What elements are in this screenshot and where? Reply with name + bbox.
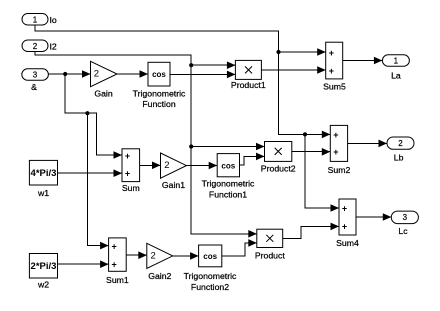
svg-text:Trigonometric: Trigonometric [133, 89, 186, 99]
svg-text:Sum2: Sum2 [328, 165, 351, 175]
constant w2 (2*Pi/3) [29, 254, 57, 290]
wire Gain1 to cos1 [186, 165, 217, 167]
trig function cos (Trigonometric Function1) [202, 154, 255, 200]
arrow into Sum1 in2 [100, 260, 109, 268]
svg-text:1: 1 [394, 56, 399, 65]
inport 3 (&) [22, 69, 49, 92]
node: port3 branch junction [63, 72, 67, 76]
svg-text:2: 2 [33, 42, 38, 51]
wire Sum2 to outport Lb [348, 142, 387, 144]
gain Gain1 [161, 153, 187, 190]
wire Gain2 to cos2 [173, 255, 199, 257]
wire I2: port2 down then right then down [35, 52, 257, 234]
svg-text:cos: cos [221, 161, 235, 170]
inport 1 (Io) [22, 14, 57, 26]
svg-text:Lc: Lc [398, 226, 408, 236]
arrow into Gain2 [138, 251, 147, 259]
svg-text:cos: cos [203, 252, 217, 261]
svg-text:+: + [329, 66, 334, 76]
wire port3 branch down to Sum in1 [65, 74, 122, 155]
wire Gain to Trigonometric Function [117, 73, 148, 75]
svg-text:+: + [125, 169, 130, 179]
wire Product1 to Sum5 in2 [261, 69, 325, 71]
svg-text:Product: Product [255, 251, 286, 261]
sum Sum5 [323, 42, 346, 91]
svg-text:+: + [333, 147, 338, 157]
arrow into Sum5 in2 [317, 66, 326, 74]
svg-text:w2: w2 [37, 280, 49, 290]
node: I2/Product1 junction [189, 63, 193, 67]
svg-text:+: + [112, 259, 117, 269]
wire branch I2 to Product1 in1 [191, 64, 235, 66]
product Product [255, 229, 286, 260]
arrow into Product in2 [248, 239, 257, 247]
svg-text:w1: w1 [37, 188, 49, 198]
svg-text:Product1: Product1 [231, 80, 266, 90]
svg-text:Trigonometric: Trigonometric [184, 271, 237, 281]
sum Sum2 [328, 125, 351, 175]
svg-text:Gain1: Gain1 [162, 180, 185, 190]
outport 3 (Lc) [391, 211, 418, 236]
svg-text:Sum4: Sum4 [336, 238, 359, 248]
svg-text:Sum5: Sum5 [323, 82, 346, 92]
svg-text:3: 3 [403, 213, 408, 222]
product Product1 [231, 60, 266, 90]
wire Sum1 to Gain2 [126, 254, 147, 256]
arrow into Sum2 in2 [322, 148, 331, 156]
wire branch down to Sum1 in1 [87, 113, 108, 245]
node: Io/Sum5 junction [276, 50, 280, 54]
svg-text:Gain2: Gain2 [148, 271, 171, 281]
arrow into Product1 in1 [227, 61, 236, 69]
outport 1 (La) [382, 55, 409, 81]
arrow into Sum4 in2 [331, 223, 340, 231]
svg-text:Sum1: Sum1 [106, 275, 129, 285]
wire w2 to Sum1 in2 [58, 263, 109, 265]
wire Product to Sum4 in2 [283, 226, 339, 238]
svg-text:I2: I2 [50, 41, 57, 51]
svg-text:+: + [342, 204, 347, 214]
node: I2/Product2 junction [189, 144, 193, 148]
node: Io/Sum4 junction [303, 132, 307, 136]
arrow into cos [140, 70, 149, 78]
arrow into Sum5 in1 [317, 48, 326, 56]
wire Product2 to Sum2 in2 [292, 151, 331, 153]
svg-text:Lb: Lb [394, 153, 404, 163]
svg-text:+: + [112, 242, 117, 252]
gain Gain [91, 61, 118, 98]
arrow into Sum1 in1 [100, 242, 109, 250]
wire Sum5 to outport La [343, 60, 383, 62]
wire Sum to Gain1 [140, 164, 161, 166]
svg-text:3: 3 [33, 71, 38, 80]
wire branch Io to Sum5 in1 [279, 51, 326, 53]
arrow into Sum in1 [114, 151, 123, 159]
trig function cos (Trigonometric Function2) [184, 245, 237, 292]
wire cos1 to Product2 in2 [240, 156, 265, 165]
arrow into Gain [82, 70, 91, 78]
svg-text:Io: Io [50, 15, 57, 25]
svg-text:+: + [342, 222, 347, 232]
arrow into outport 2 [379, 140, 388, 148]
arrow into Product2 in2 [256, 153, 265, 161]
inport 2 (I2) [22, 40, 57, 52]
svg-text:cos: cos [152, 70, 166, 79]
wire cos to Product1 in2 [170, 73, 235, 75]
svg-text:4*Pi/3: 4*Pi/3 [31, 168, 57, 179]
arrow into outport 1 [374, 57, 383, 65]
svg-text:+: + [125, 151, 130, 161]
svg-text:Trigonometric: Trigonometric [202, 179, 255, 189]
svg-text:Product2: Product2 [261, 163, 296, 173]
gain Gain2 [147, 243, 173, 281]
arrow into cos1 [209, 162, 218, 170]
wire cos2 to Product in2 [222, 243, 257, 256]
svg-text:2: 2 [398, 139, 403, 148]
arrow into Product in1 [248, 230, 257, 238]
product Product2 [261, 142, 296, 174]
svg-text:2: 2 [94, 69, 99, 80]
svg-text:2: 2 [151, 250, 156, 261]
svg-text:+: + [329, 48, 334, 58]
wire port3 to Gain [48, 73, 90, 75]
wire Io: port1 to junction [35, 25, 330, 134]
arrow into Product1 in2 [227, 71, 236, 79]
wire w1 to Sum in2 [58, 172, 123, 174]
svg-text:2: 2 [164, 160, 169, 171]
sum Sum4 [336, 199, 359, 248]
wire branch Io to Sum4 in1 [305, 134, 339, 208]
sum Sum [122, 149, 140, 193]
arrow into Sum in2 [114, 169, 123, 177]
svg-text:Function1: Function1 [209, 189, 247, 199]
arrow into Sum2 in1 [322, 131, 331, 139]
svg-text:Function: Function [142, 99, 175, 109]
arrow into outport 3 [383, 213, 392, 221]
svg-text:+: + [333, 130, 338, 140]
arrow into cos2 [190, 252, 199, 260]
svg-text:2*Pi/3: 2*Pi/3 [31, 261, 57, 272]
svg-text:Function2: Function2 [191, 282, 229, 292]
wire branch I2 to Product2 in1 [191, 146, 264, 148]
outport 2 (Lb) [387, 137, 414, 163]
constant w1 (4*Pi/3) [29, 160, 57, 198]
trig function cos (Trigonometric Function) [133, 62, 186, 109]
svg-text:La: La [391, 70, 401, 80]
arrow into Sum4 in1 [331, 204, 340, 212]
node: branch to Sum1 junction [85, 111, 89, 115]
svg-text:Sum: Sum [122, 183, 140, 193]
svg-text:Gain: Gain [94, 88, 113, 98]
svg-text:1: 1 [33, 15, 38, 24]
wire Sum4 to outport Lc [356, 216, 391, 218]
arrow into Gain1 [152, 162, 161, 170]
svg-text:&: & [31, 82, 37, 92]
arrow into Product2 in1 [256, 143, 265, 151]
sum Sum1 [106, 238, 129, 285]
